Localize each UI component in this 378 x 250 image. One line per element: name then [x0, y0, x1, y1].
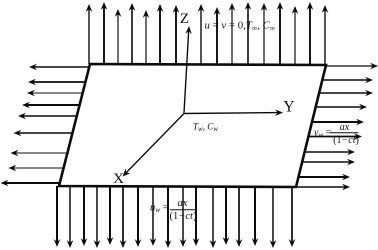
right arrow 4 (flow, right edge) — [316, 104, 367, 111]
up arrow 10 (ambient flow, top) — [229, 3, 236, 65]
right arrow 2 (flow, right edge) — [322, 77, 373, 84]
left arrow 9 (flow, left edge) — [1, 180, 60, 187]
down arrow 4 (ambient flow, bottom) — [94, 186, 101, 248]
label uw = ax/(1-ct) (streamwise stretching velocity) — [150, 198, 197, 222]
up arrow 6 (ambient flow, top) — [157, 4, 164, 64]
down arrow 12 (ambient flow, bottom) — [210, 187, 217, 248]
left arrow 6 (flow, left edge) — [14, 130, 73, 137]
axis X (oblique coordinate axis) — [123, 114, 185, 177]
left arrow 4 (flow, left edge) — [22, 102, 80, 109]
svg-text:vw =: vw = — [314, 127, 332, 139]
up arrow 4 (ambient flow, top) — [129, 3, 136, 64]
up arrow 15 (ambient flow, top) — [307, 2, 314, 65]
up arrow 9 (ambient flow, top) — [214, 7, 221, 65]
up arrow 3 (ambient flow, top) — [115, 9, 122, 64]
right arrow 8 (flow, right edge) — [302, 159, 355, 166]
svg-text:(1−ct): (1−ct) — [170, 211, 197, 222]
up arrow 16 (ambient flow, top) — [322, 5, 329, 65]
right arrow 10 (flow, right edge) — [296, 184, 350, 191]
left arrow 1 (flow, left edge) — [29, 64, 89, 71]
up arrow 5 (ambient flow, top) — [143, 10, 150, 64]
down arrow 5 (ambient flow, bottom) — [107, 186, 114, 245]
down arrow 17 (ambient flow, bottom) — [289, 187, 296, 247]
down arrow 7 (ambient flow, bottom) — [135, 186, 142, 247]
right arrow 1 (flow, right edge) — [326, 63, 378, 70]
left arrow 8 (flow, left edge) — [8, 165, 63, 172]
up arrow 2 (ambient flow, top) — [101, 2, 108, 64]
svg-text:ax: ax — [178, 198, 188, 209]
right arrow 9 (flow, right edge) — [299, 174, 351, 181]
down arrow 14 (ambient flow, bottom) — [236, 187, 243, 247]
svg-text:Y: Y — [283, 99, 294, 116]
svg-text:uw =: uw = — [150, 203, 169, 215]
right arrow 6 (flow, right edge) — [308, 133, 362, 140]
down arrow 6 (ambient flow, bottom) — [120, 186, 127, 248]
svg-text:Z: Z — [180, 11, 189, 27]
up arrow 11 (ambient flow, top) — [245, 2, 252, 65]
right arrow 7 (flow, right edge) — [305, 149, 355, 156]
left arrow 5 (flow, left edge) — [18, 113, 77, 120]
up arrow 14 (ambient flow, top) — [292, 6, 299, 65]
svg-text:u = v = 0,T∞, C∞: u = v = 0,T∞, C∞ — [205, 20, 276, 33]
left arrow 2 (flow, left edge) — [28, 79, 85, 86]
up arrow 12 (ambient flow, top) — [261, 3, 268, 65]
svg-text:ax: ax — [340, 122, 350, 133]
down arrow 15 (ambient flow, bottom) — [252, 187, 259, 246]
left arrow 7 (flow, left edge) — [11, 150, 68, 157]
up arrow 8 (ambient flow, top) — [198, 4, 205, 65]
down arrow 9 (ambient flow, bottom) — [165, 187, 172, 249]
up arrow 7 (ambient flow, top) — [173, 5, 180, 64]
down arrow 16 (ambient flow, bottom) — [270, 187, 277, 248]
down arrow 10 (ambient flow, bottom) — [180, 187, 187, 248]
up arrow 1 (ambient flow, top) — [86, 4, 93, 64]
svg-text:X: X — [113, 171, 124, 187]
down arrow 2 (ambient flow, bottom) — [67, 186, 74, 248]
axis Z (vertical coordinate axis) — [184, 26, 192, 113]
label vw = ax/(1-ct) (lateral stretching velocity) — [314, 122, 359, 146]
down arrow 8 (ambient flow, bottom) — [150, 186, 157, 246]
down arrow 3 (ambient flow, bottom) — [81, 186, 88, 246]
left arrow 3 (flow, left edge) — [27, 90, 83, 97]
down arrow 11 (ambient flow, bottom) — [193, 187, 200, 246]
down arrow 1 (ambient flow, bottom) — [54, 186, 61, 247]
right arrow 5 (flow, right edge) — [312, 119, 364, 126]
up arrow 13 (ambient flow, top) — [277, 2, 284, 65]
axis Y (horizontal coordinate axis) — [184, 109, 283, 116]
svg-text:(1−ct): (1−ct) — [333, 135, 359, 146]
stretching sheet (parallelogram) — [59, 64, 326, 187]
down arrow 13 (ambient flow, bottom) — [223, 187, 230, 245]
right arrow 3 (flow, right edge) — [319, 90, 373, 97]
